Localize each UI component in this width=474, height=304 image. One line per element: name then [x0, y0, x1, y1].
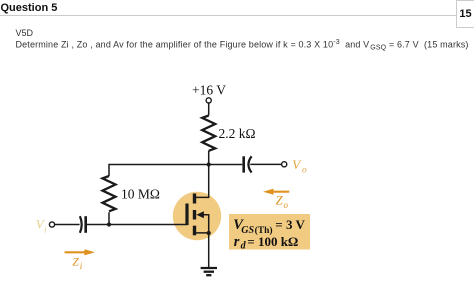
svg-text:Z: Z — [72, 255, 79, 269]
svg-text:+16 V: +16 V — [192, 82, 226, 97]
svg-text:i: i — [80, 261, 83, 271]
svg-text:= 100 kΩ: = 100 kΩ — [247, 234, 298, 249]
svg-text:o: o — [284, 200, 289, 210]
svg-text:10 MΩ: 10 MΩ — [121, 187, 160, 202]
svg-text:i: i — [44, 225, 47, 235]
svg-text:2.2 kΩ: 2.2 kΩ — [219, 126, 256, 141]
svg-text:o: o — [302, 166, 307, 176]
svg-text:= 3 V: = 3 V — [275, 217, 305, 232]
svg-text:r: r — [234, 234, 240, 250]
svg-text:Z: Z — [276, 194, 284, 208]
svg-text:V: V — [292, 157, 302, 172]
